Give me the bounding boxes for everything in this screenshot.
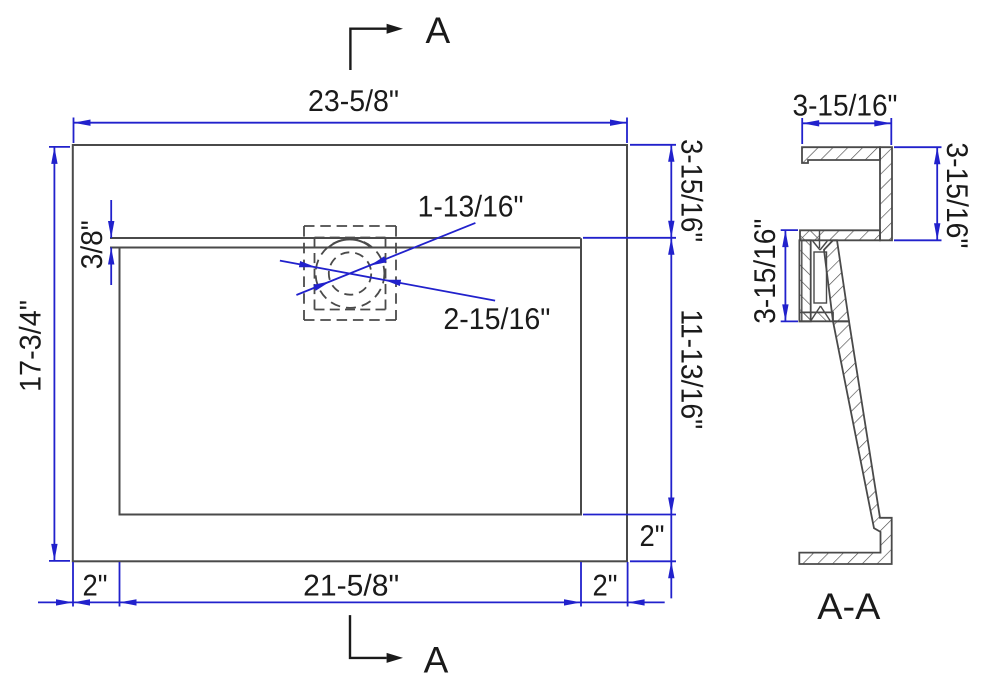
svg-text:2": 2": [83, 570, 108, 603]
section top ext right: [890, 118, 892, 145]
top marker arrowhead: [387, 24, 403, 34]
arrow section top right: [874, 120, 891, 126]
section right ext bottom: [894, 239, 942, 241]
svg-text:23-5/8": 23-5/8": [308, 85, 399, 118]
right ext top: [630, 144, 676, 146]
arrow section left up: [782, 230, 788, 247]
svg-text:3-15/16": 3-15/16": [793, 90, 898, 123]
arrow section right up: [934, 147, 940, 164]
deck front edge line: [110, 237, 581, 239]
section left ext top: [781, 229, 798, 231]
dim 3/8 line lower: [110, 248, 112, 286]
section bottom strip: [799, 312, 833, 321]
bottom ext basin-left: [119, 562, 121, 607]
arrow leader1 left: [313, 281, 330, 290]
dim 3/8 line upper: [110, 200, 112, 238]
arrow 3/8 upper: [108, 221, 114, 238]
svg-text:1-13/16": 1-13/16": [418, 190, 524, 223]
arrow leader2 right: [384, 280, 401, 286]
arrow 21-5/8 left: [120, 599, 137, 605]
arrow section right down: [934, 223, 940, 240]
faucet inner dashed square: [315, 238, 386, 310]
top section marker line: [350, 29, 386, 70]
right dimension line: [670, 145, 672, 599]
svg-text:3-15/16": 3-15/16": [940, 142, 973, 248]
bottom marker arrowhead: [387, 653, 403, 663]
faucet outer dashed square: [304, 226, 396, 320]
arrow bottom outer-right outside: [628, 599, 645, 605]
svg-text:21-5/8": 21-5/8": [303, 570, 399, 603]
bottom section marker line: [350, 615, 387, 658]
svg-text:A-A: A-A: [817, 586, 880, 627]
dim 23-5/8 line: [74, 122, 628, 124]
screw tip chevron right: [821, 306, 831, 321]
svg-text:2": 2": [640, 520, 665, 553]
svg-text:3-15/16": 3-15/16": [675, 139, 708, 242]
section long wall and foot: [799, 321, 891, 564]
svg-text:17-3/4": 17-3/4": [15, 300, 48, 392]
arrow leader1 right: [370, 256, 387, 265]
svg-text:2-15/16": 2-15/16": [443, 303, 550, 336]
section top ext left: [801, 118, 803, 144]
section rim band: [800, 230, 880, 240]
dim 23-5/8 ext right: [626, 118, 628, 144]
faucet outer dashed circle: [316, 239, 385, 308]
arrow leader2 left: [299, 261, 316, 267]
screw shank outline: [814, 252, 827, 303]
svg-text:A: A: [424, 639, 449, 680]
arrow section left down: [782, 304, 788, 321]
dim 23-5/8 ext left: [73, 118, 75, 144]
arrow right-dim basin down: [668, 498, 674, 515]
arrow right-dim deck down: [668, 221, 674, 238]
arrow 23-5/8 left: [74, 120, 91, 126]
section rim band left crosshatch: [800, 230, 820, 240]
outer rim rectangle: [73, 145, 627, 561]
leader 2-15/16: [280, 261, 495, 301]
svg-text:3-15/16": 3-15/16": [749, 219, 782, 324]
right ext outer-bottom: [630, 560, 676, 562]
arrow 17-3/4 top: [51, 147, 57, 164]
section slant band: [824, 240, 849, 321]
screw tip chevron left: [811, 306, 821, 321]
arrow 17-3/4 bottom: [51, 544, 57, 561]
arrow right-dim deck up: [668, 238, 674, 255]
section right vertical bar: [880, 147, 892, 240]
svg-text:3/8": 3/8": [76, 220, 109, 269]
leader 1-13/16: [296, 223, 475, 295]
section right dim line: [936, 147, 938, 240]
svg-text:2": 2": [593, 570, 618, 603]
faucet inner dashed circle: [329, 252, 371, 294]
seam line flange junction: [819, 230, 821, 248]
section top dim line: [802, 122, 891, 124]
section left ext bottom: [781, 320, 798, 322]
section right ext top: [894, 146, 942, 148]
svg-text:11-13/16": 11-13/16": [675, 309, 708, 429]
screw head funnel right: [820, 241, 827, 250]
bottom ext outer-right: [627, 562, 629, 607]
right ext basin-bottom: [583, 514, 676, 516]
arrow 23-5/8 right: [610, 120, 627, 126]
svg-text:A: A: [426, 10, 451, 51]
faucet hole visible arc: [329, 239, 372, 247]
section top bar with lip: [802, 147, 880, 163]
section left dim line: [784, 230, 786, 321]
deck inner edge line: [110, 247, 581, 249]
right ext deck: [583, 237, 676, 239]
bottom dimension line: [38, 601, 665, 603]
arrow 3/8 lower: [108, 248, 114, 265]
screw head funnel left: [813, 241, 820, 250]
arrow right-dim outer up: [668, 561, 674, 578]
arrow bottom outer-left inside: [73, 599, 90, 605]
arrow right-dim top up: [668, 145, 674, 162]
dim 17-3/4 line: [53, 147, 55, 561]
dim 17-3/4 ext top: [49, 146, 70, 148]
dim 17-3/4 ext bottom: [49, 560, 70, 562]
basin inner rectangle: [120, 238, 582, 514]
section left wall: [799, 240, 810, 321]
arrow bottom outer-left outside: [56, 599, 73, 605]
bottom ext basin-right: [580, 562, 582, 607]
arrow 21-5/8 right: [564, 599, 581, 605]
bottom ext outer-left: [72, 562, 74, 607]
wall inner line: [801, 241, 803, 322]
arrow section top left: [802, 120, 819, 126]
